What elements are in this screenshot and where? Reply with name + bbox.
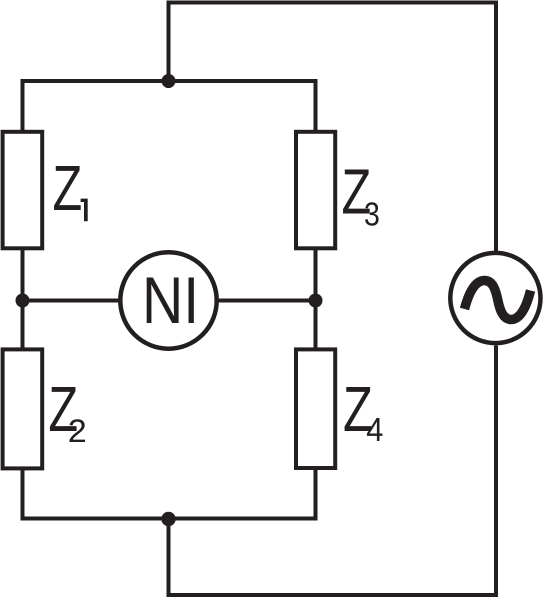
node dot left: [16, 294, 30, 308]
impedance Z2: [3, 349, 43, 468]
wire: left column Z1-Z2 through node: [21, 248, 25, 349]
wire: right column Z3-Z4 through node: [314, 248, 318, 349]
wire: NI to right node: [215, 299, 316, 303]
impedance Z3: [296, 132, 335, 249]
svg-text:4: 4: [366, 411, 383, 448]
AC source sine symbol: [465, 281, 531, 320]
impedance Z4: [296, 349, 335, 468]
svg-text:Z: Z: [53, 154, 83, 225]
svg-text:2: 2: [68, 414, 87, 450]
wire: top node up, across top, down to source top: [169, 3, 497, 252]
wire: source bottom, down, across bottom, up to bottom node: [169, 346, 497, 596]
node dot top: [162, 74, 176, 88]
node dot right: [309, 294, 323, 308]
impedance Z1: [3, 132, 43, 249]
wire: bridge bottom rail with corner rises: [23, 468, 316, 519]
label Z1 subscript 1: [81, 199, 88, 222]
svg-text:NI: NI: [142, 264, 199, 338]
null indicator NI circle: [120, 252, 216, 348]
AC source circle: [450, 253, 540, 343]
svg-text:3: 3: [364, 195, 380, 233]
node dot bottom: [161, 512, 175, 526]
wire: bridge top rail with corner drops: [23, 81, 316, 132]
wire: left node to NI: [23, 299, 123, 303]
